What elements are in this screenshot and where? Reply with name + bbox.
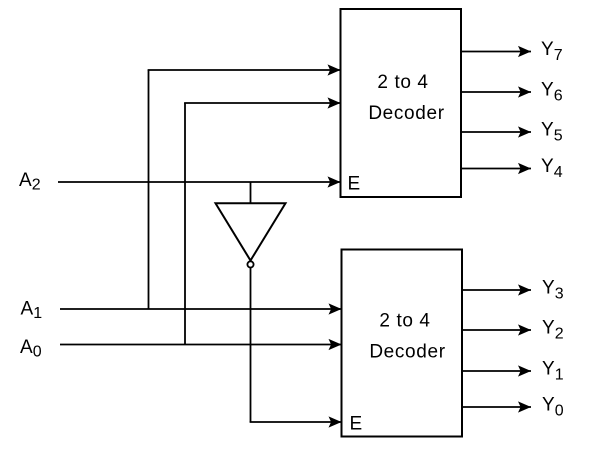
wire vertical A0 branch up (184, 103, 186, 345)
wire output Y2 (462, 329, 532, 331)
wire A0 horizontal to U2 input 2 (60, 344, 342, 346)
wire output Y0 (462, 406, 532, 408)
wire vertical A1 branch up (148, 70, 150, 309)
wire output Y4 (461, 168, 532, 170)
svg-text:Y5: Y5 (541, 120, 563, 145)
wire A2 to U1 pin E (58, 181, 341, 183)
svg-text:Y2: Y2 (542, 318, 564, 343)
svg-text:A0: A0 (20, 337, 42, 361)
wire A1 branch to U1 input 1 (148, 69, 341, 71)
wire A0 branch to U1 input 2 (184, 102, 340, 104)
svg-text:Y1: Y1 (542, 359, 564, 384)
decoder U2 (bottom 2 to 4 Decoder) (342, 250, 463, 437)
decoder U1 (top 2 to 4 Decoder) (341, 9, 462, 197)
svg-text:Y4: Y4 (541, 156, 563, 181)
wire A1 horizontal to U2 input 1 (60, 308, 342, 310)
inverter U3 output bubble (247, 261, 253, 267)
wire output Y5 (461, 131, 532, 133)
wire inverter input stem (250, 182, 252, 204)
svg-text:A1: A1 (21, 299, 43, 323)
svg-text:A2: A2 (19, 170, 41, 194)
svg-text:E: E (350, 414, 363, 435)
svg-text:E: E (348, 174, 361, 195)
svg-text:Y7: Y7 (541, 39, 563, 64)
wire inverter output to U2 pin E (250, 421, 342, 423)
svg-text:Y3: Y3 (542, 278, 564, 303)
wire inverter output vertical down (250, 268, 252, 422)
svg-text:2 to 4: 2 to 4 (377, 72, 428, 93)
svg-text:Decoder: Decoder (368, 103, 444, 124)
wire output Y1 (462, 370, 532, 372)
wire output Y3 (462, 289, 532, 291)
wire output Y7 (461, 51, 532, 53)
svg-text:Decoder: Decoder (369, 342, 445, 363)
svg-text:Y6: Y6 (541, 80, 563, 105)
wire output Y6 (461, 91, 532, 93)
inverter U3 triangle (216, 203, 286, 260)
svg-text:Y0: Y0 (542, 395, 564, 420)
svg-text:2 to 4: 2 to 4 (379, 311, 430, 332)
